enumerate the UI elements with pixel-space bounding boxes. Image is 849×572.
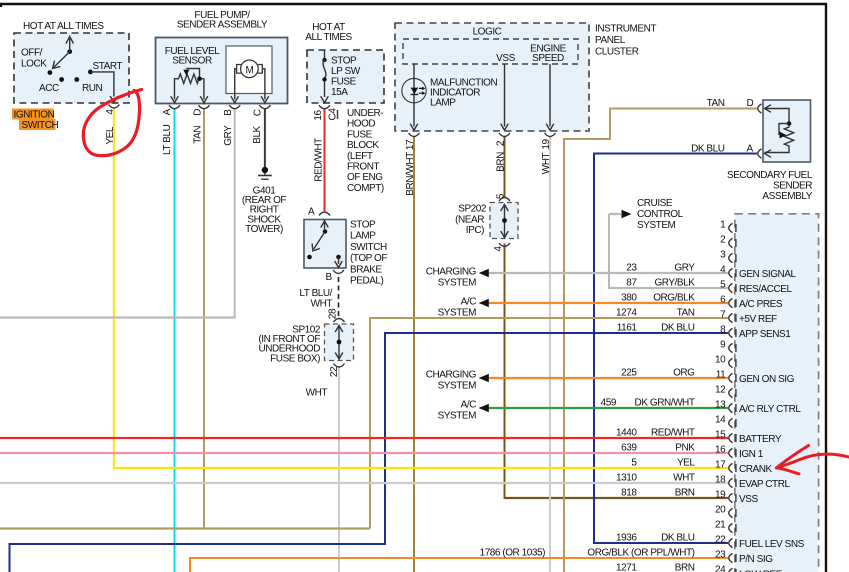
svg-text:OF ENG: OF ENG: [347, 172, 383, 183]
svg-text:1271: 1271: [616, 563, 637, 572]
svg-text:IPC): IPC): [466, 225, 484, 236]
wire PNK row pin16: [0, 452, 728, 454]
red hand-drawn arrow pointing at CRANK: [777, 446, 849, 474]
svg-text:ACC: ACC: [39, 83, 59, 94]
svg-text:BRN/WHT: BRN/WHT: [405, 152, 416, 196]
svg-text:20: 20: [715, 505, 726, 516]
svg-text:COMPT): COMPT): [347, 183, 384, 194]
wire WHT row pin18: [0, 482, 728, 484]
wire GRY row pin4: [480, 272, 729, 274]
SP202 top arc: [499, 198, 510, 202]
svg-text:WHT: WHT: [541, 152, 552, 174]
svg-text:14: 14: [715, 415, 726, 426]
svg-text:A: A: [747, 144, 754, 155]
SP202 internal wire: [504, 204, 506, 238]
svg-text:1310: 1310: [616, 473, 637, 484]
secondary fuel sender assembly box: [763, 100, 811, 162]
svg-text:BRN: BRN: [496, 152, 507, 172]
wire YEL row pin17: [113, 467, 728, 469]
svg-text:B: B: [326, 272, 333, 283]
wire TAN vertical from fuel pump D: [203, 108, 205, 529]
svg-text:12: 12: [715, 385, 726, 396]
svg-text:TOWER): TOWER): [245, 224, 283, 235]
svg-text:LT BLU/: LT BLU/: [299, 288, 332, 299]
svg-text:2: 2: [496, 140, 507, 146]
ignition exit arc pin 4: [108, 105, 119, 109]
VSS wire: [504, 64, 506, 127]
fuel sensor exit arrow A: [171, 96, 179, 103]
wire LT BLU vertical from fuel pump A: [174, 108, 176, 572]
svg-text:SWITCH: SWITCH: [22, 120, 59, 131]
svg-text:7: 7: [720, 310, 726, 321]
svg-text:A/C: A/C: [461, 400, 477, 411]
svg-text:LT BLU: LT BLU: [162, 124, 173, 155]
wire GRY/BLK cruise control riser: [608, 214, 610, 288]
wire RED/WHT row pin15: [0, 437, 728, 439]
svg-text:INSTRUMENT: INSTRUMENT: [595, 24, 656, 35]
wire GRY horizontal to left edge: [0, 316, 236, 318]
wire BRN corner to pin 19: [504, 497, 729, 499]
fuel level sensor wiper: [183, 70, 189, 76]
wire ORG/BLK riser row23: [190, 558, 728, 572]
fuel level sensor resistor: [175, 74, 204, 100]
svg-text:DK BLU: DK BLU: [661, 533, 695, 544]
ignition switch pivot dot: [67, 49, 72, 54]
svg-text:SPEED: SPEED: [532, 53, 564, 64]
svg-text:FUSE: FUSE: [347, 129, 373, 140]
wire DK GRN/WHT row pin13: [480, 407, 729, 409]
svg-text:D: D: [747, 98, 754, 109]
motor right lead: [262, 69, 265, 100]
motor exit arrow B: [231, 96, 239, 103]
wire RED/WHT vertical fuse to stop lamp switch: [324, 109, 326, 212]
svg-text:SENDER: SENDER: [773, 181, 812, 192]
svg-text:18: 18: [715, 475, 726, 486]
svg-text:SYSTEM: SYSTEM: [438, 308, 477, 319]
stop lamp switch common dot: [323, 229, 328, 234]
wire DK BLU 1161 net: [10, 333, 729, 572]
ignition RUN contact dot: [74, 77, 79, 82]
secondary sender pin D arc: [758, 104, 762, 113]
SP102 internal wire: [338, 325, 340, 360]
ignition switch box (HOT AT ALL TIMES): [14, 33, 129, 103]
svg-text:VSS: VSS: [496, 53, 515, 64]
stop lamp entry arrow: [324, 220, 326, 230]
svg-text:CRANK: CRANK: [739, 464, 773, 475]
fuel pump/sender assembly box: [156, 38, 288, 104]
instrument panel cluster LOGIC outer box: [395, 23, 589, 131]
cruise control arrow: [622, 210, 632, 219]
svg-text:LAMP: LAMP: [350, 231, 376, 242]
svg-text:PNK: PNK: [675, 443, 695, 454]
wire TAN riser row7: [370, 318, 728, 529]
motor exit arrow C: [261, 96, 269, 103]
secondary sender wiper: [779, 124, 789, 136]
svg-text:OFF/: OFF/: [21, 48, 43, 59]
ignition START contact dot: [88, 70, 93, 75]
cluster exit arc pin 17: [409, 133, 420, 137]
svg-text:ORG/BLK: ORG/BLK: [653, 293, 695, 304]
svg-text:1161: 1161: [617, 323, 638, 334]
stop lamp B lead: [338, 257, 340, 264]
svg-text:9: 9: [720, 340, 726, 351]
wire ORG/BLK row pin6: [480, 302, 729, 304]
svg-text:4: 4: [493, 246, 504, 252]
cluster exit arc pin 19: [545, 133, 556, 137]
svg-text:LAMP: LAMP: [430, 98, 456, 109]
secondary sender junction dot: [787, 121, 792, 126]
stop lamp exit arc B: [333, 270, 344, 274]
svg-text:EVAP CTRL: EVAP CTRL: [739, 479, 790, 490]
svg-text:RED/WHT: RED/WHT: [314, 138, 325, 182]
ignition switch up arrow: [69, 39, 71, 52]
svg-text:BRAKE: BRAKE: [350, 264, 382, 275]
ground G401: [264, 168, 266, 175]
svg-text:FUSE BOX): FUSE BOX): [270, 353, 320, 364]
motor right brush: [258, 65, 263, 74]
svg-text:FUSE: FUSE: [331, 77, 357, 88]
svg-text:818: 818: [621, 488, 637, 499]
fuel sensor exit arrow D: [200, 96, 208, 103]
svg-text:4: 4: [720, 265, 726, 276]
svg-text:IGNITION: IGNITION: [14, 110, 55, 121]
svg-text:15: 15: [715, 430, 726, 441]
red hand-drawn circle around YEL 4: [83, 90, 141, 156]
svg-text:87: 87: [626, 278, 637, 289]
ignition OFF/LOCK contact dot: [48, 70, 53, 75]
a/c system arrow 2: [479, 404, 489, 413]
svg-text:5: 5: [496, 193, 507, 199]
svg-text:SECONDARY FUEL: SECONDARY FUEL: [727, 170, 813, 181]
svg-text:23: 23: [715, 550, 726, 561]
svg-text:B: B: [223, 109, 234, 116]
fuse STOP LP SW 15A: [324, 50, 326, 59]
svg-text:5: 5: [720, 280, 726, 291]
fuel level sensor junction dot: [197, 76, 202, 81]
svg-text:TAN: TAN: [707, 98, 725, 109]
svg-text:BRN: BRN: [675, 563, 695, 572]
SP102 bottom arc: [334, 364, 345, 368]
PCM connector pin arcs 1-24: [729, 223, 733, 232]
svg-text:+5V REF: +5V REF: [739, 314, 777, 325]
PCM connector box (right): [735, 214, 819, 572]
svg-text:SYSTEM: SYSTEM: [438, 278, 477, 289]
svg-text:BATTERY: BATTERY: [739, 434, 782, 445]
svg-text:UNDER-: UNDER-: [347, 108, 383, 119]
svg-text:START: START: [93, 61, 123, 72]
svg-text:19: 19: [715, 490, 726, 501]
svg-text:3: 3: [720, 250, 726, 261]
svg-text:ASSEMBLY: ASSEMBLY: [762, 191, 812, 202]
svg-text:1786 (OR 1035): 1786 (OR 1035): [480, 548, 546, 559]
malfunction indicator lamp circle: [402, 78, 426, 102]
svg-text:A/C RLY CTRL: A/C RLY CTRL: [739, 404, 801, 415]
svg-text:23: 23: [626, 263, 637, 274]
splice SP102 box: [325, 324, 354, 361]
svg-text:RED/WHT: RED/WHT: [651, 428, 695, 439]
wire BRN vertical SP202 to VSS row: [504, 244, 506, 500]
svg-text:CONTROL: CONTROL: [637, 209, 684, 220]
svg-text:1: 1: [720, 220, 726, 231]
malfunction lamp wire bottom: [410, 124, 418, 131]
stop lamp switch box: [304, 220, 346, 269]
svg-text:HOT AT ALL TIMES: HOT AT ALL TIMES: [23, 21, 104, 32]
LOGIC inner box: [403, 39, 578, 64]
svg-text:17: 17: [405, 139, 416, 150]
svg-text:5: 5: [631, 458, 637, 469]
svg-text:(TOP OF: (TOP OF: [350, 253, 387, 264]
ignition switch lever: [54, 52, 70, 68]
svg-text:YEL: YEL: [105, 126, 116, 144]
svg-text:FUEL LEV SNS: FUEL LEV SNS: [739, 539, 805, 550]
svg-text:C4: C4: [328, 108, 339, 121]
svg-text:M: M: [245, 65, 253, 76]
svg-text:6: 6: [720, 295, 726, 306]
svg-text:D: D: [193, 109, 204, 116]
svg-text:GEN ON SIG: GEN ON SIG: [739, 374, 795, 385]
svg-text:WHT: WHT: [306, 388, 328, 399]
ENGINE SPEED wire: [549, 64, 551, 127]
charging system arrow 1: [479, 269, 489, 278]
svg-text:1440: 1440: [616, 428, 637, 439]
svg-text:SWITCH: SWITCH: [350, 242, 387, 253]
fuel pump exit arc A: [169, 105, 180, 109]
splice SP202 box: [490, 203, 518, 239]
svg-text:17: 17: [715, 460, 726, 471]
svg-text:22: 22: [715, 535, 726, 546]
ignition exit arrow pin 4: [110, 96, 118, 103]
svg-text:DK GRN/WHT: DK GRN/WHT: [635, 398, 695, 409]
svg-text:BRN: BRN: [675, 488, 695, 499]
svg-text:2: 2: [720, 235, 726, 246]
wire BRN/WHT vertical from cluster pin 17: [413, 137, 415, 572]
svg-text:ORG/BLK (OR PPL/WHT): ORG/BLK (OR PPL/WHT): [587, 548, 694, 559]
stop lamp exit arrow B: [335, 261, 343, 268]
wire TAN secondary sender net: [564, 109, 757, 572]
wire DK BLU from secondary sender A: [594, 154, 757, 544]
svg-text:380: 380: [621, 293, 637, 304]
svg-text:21: 21: [715, 520, 726, 531]
wire BRN vertical from cluster pin 2 through SP202: [504, 137, 506, 199]
secondary sender pin D arrow: [765, 105, 772, 113]
svg-text:APP SENS1: APP SENS1: [739, 329, 791, 340]
wire YEL vertical from ignition switch: [113, 109, 115, 469]
svg-text:1274: 1274: [616, 308, 637, 319]
svg-text:SENSOR: SENSOR: [172, 56, 212, 67]
fuel sensor right leg: [203, 79, 205, 100]
svg-text:FRONT: FRONT: [347, 162, 380, 173]
svg-text:IGN 1: IGN 1: [739, 449, 764, 460]
svg-text:WHT: WHT: [673, 473, 695, 484]
cluster exit arc pin 2: [499, 133, 510, 137]
motor left brush: [237, 65, 241, 74]
svg-text:ORG: ORG: [673, 368, 695, 379]
svg-text:GEN SIGNAL: GEN SIGNAL: [739, 269, 797, 280]
label IGNITION SWITCH highlighted: [12, 109, 54, 120]
svg-text:RUN: RUN: [82, 83, 103, 94]
ignition ACC contact dot: [59, 77, 64, 82]
motor left lead: [235, 69, 237, 100]
svg-text:16: 16: [313, 110, 324, 121]
svg-text:4: 4: [105, 109, 116, 115]
svg-text:8: 8: [720, 325, 726, 336]
C4 tick mark: [337, 110, 339, 119]
SP202 bottom arc: [499, 243, 510, 247]
stop lamp switch lever: [314, 232, 325, 250]
ignition START wire to exit: [90, 72, 114, 97]
svg-text:TAN: TAN: [192, 126, 203, 144]
malfunction indicator lamp wire top: [413, 64, 415, 127]
fuel pump motor inner box: [226, 46, 272, 94]
wire WHT vertical from cluster pin 19: [549, 137, 551, 572]
SP202 splice dot: [502, 218, 507, 223]
SP102 top arc: [334, 319, 345, 323]
svg-text:C: C: [252, 109, 263, 116]
svg-text:BLK: BLK: [252, 125, 263, 143]
svg-text:CRUISE: CRUISE: [637, 198, 673, 209]
svg-text:DK BLU: DK BLU: [661, 323, 695, 334]
svg-text:GRY: GRY: [223, 125, 234, 146]
svg-text:BLOCK: BLOCK: [347, 140, 379, 151]
fuel pump exit arc B: [229, 105, 240, 109]
motor M circle: [241, 60, 259, 78]
svg-text:(NEAR: (NEAR: [455, 215, 484, 226]
wire BLK vertical from fuel pump C to G401: [264, 108, 266, 168]
svg-text:RES/ACCEL: RES/ACCEL: [739, 284, 793, 295]
secondary sender pin A arc: [758, 149, 762, 158]
svg-text:CHARGING: CHARGING: [426, 267, 477, 278]
svg-text:SYSTEM: SYSTEM: [438, 411, 477, 422]
svg-text:YEL: YEL: [677, 458, 695, 469]
svg-text:GRY: GRY: [674, 263, 695, 274]
svg-text:CLUSTER: CLUSTER: [595, 47, 639, 58]
wire GRY/BLK row pin5: [608, 287, 728, 289]
stop lamp left contact dot: [307, 255, 312, 260]
svg-text:CHARGING: CHARGING: [426, 370, 477, 381]
wire ORG row pin11: [480, 377, 729, 379]
svg-text:P/N SIG: P/N SIG: [739, 554, 773, 565]
svg-text:DK BLU: DK BLU: [691, 144, 725, 155]
svg-text:A/C: A/C: [461, 297, 477, 308]
fuel pump exit arc D: [199, 105, 210, 109]
fuse exit arc: [319, 105, 330, 109]
a/c system arrow 1: [479, 299, 489, 308]
fuel pump exit arc C: [259, 105, 270, 109]
stop lamp entry arc A: [319, 212, 330, 216]
svg-text:PANEL: PANEL: [595, 35, 626, 46]
wire GRY/BLK cruise horizontal: [609, 213, 621, 215]
svg-text:13: 13: [715, 400, 726, 411]
svg-text:459: 459: [601, 398, 617, 409]
svg-text:STOP: STOP: [331, 56, 357, 67]
secondary sender resistor: [765, 109, 790, 124]
svg-text:225: 225: [621, 368, 637, 379]
svg-text:19: 19: [541, 139, 552, 150]
svg-text:11: 11: [716, 370, 726, 381]
svg-text:VSS: VSS: [739, 494, 758, 505]
svg-text:16: 16: [715, 445, 726, 456]
svg-text:PEDAL): PEDAL): [350, 276, 384, 287]
svg-text:WHT: WHT: [311, 299, 333, 310]
svg-text:GRY/BLK: GRY/BLK: [654, 278, 695, 289]
wire LT BLU/WHT dashed from stop lamp B to SP102: [338, 277, 340, 316]
svg-text:22: 22: [329, 366, 340, 377]
svg-text:LOCK: LOCK: [21, 59, 47, 70]
svg-text:10: 10: [715, 355, 726, 366]
svg-text:(LEFT: (LEFT: [347, 151, 373, 162]
secondary sender pin A arrow: [765, 150, 772, 158]
svg-text:A: A: [308, 207, 315, 218]
charging system arrow 2: [479, 374, 489, 383]
malfunction indicator lamp symbol: [411, 88, 419, 94]
SP102 splice dot: [337, 340, 342, 345]
svg-text:639: 639: [621, 443, 637, 454]
svg-text:24: 24: [715, 565, 726, 572]
svg-text:15A: 15A: [331, 87, 348, 98]
svg-text:TAN: TAN: [677, 308, 695, 319]
underhood fuse block box (HOT AT ALL TIMES): [307, 50, 384, 103]
svg-text:SYSTEM: SYSTEM: [637, 220, 676, 231]
svg-text:STOP: STOP: [350, 220, 376, 231]
svg-text:A/C PRES: A/C PRES: [739, 299, 783, 310]
svg-text:SYSTEM: SYSTEM: [438, 381, 477, 392]
svg-text:A: A: [162, 108, 173, 115]
fuse exit arrow pin 16: [321, 96, 329, 103]
svg-text:ALL TIMES: ALL TIMES: [305, 32, 352, 43]
svg-text:1936: 1936: [616, 533, 637, 544]
wire TAN lower horizontal: [0, 527, 370, 529]
svg-text:HOOD: HOOD: [347, 119, 375, 130]
wire WHT vertical from SP102 down: [338, 366, 340, 572]
stop lamp right contact dot: [336, 255, 341, 260]
svg-text:LOGIC: LOGIC: [473, 27, 502, 38]
svg-text:28: 28: [328, 308, 339, 319]
svg-text:LP SW: LP SW: [331, 66, 361, 77]
svg-text:SENDER ASSEMBLY: SENDER ASSEMBLY: [177, 20, 268, 31]
wire GRY vertical from fuel pump B: [234, 108, 236, 318]
svg-text:SP202: SP202: [458, 204, 487, 215]
